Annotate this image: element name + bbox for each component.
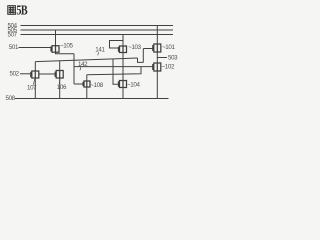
bus 507 bbox=[21, 34, 174, 36]
svg-text:~103: ~103 bbox=[128, 44, 141, 51]
wire 501 input bbox=[19, 47, 53, 49]
wire source Q103 to drain Q104 bbox=[122, 53, 124, 81]
title figure 5B bbox=[8, 2, 28, 17]
leader of 141 bbox=[97, 52, 100, 55]
transistor Q104 bbox=[119, 81, 127, 88]
wire source of Q105 jog bbox=[56, 52, 75, 54]
svg-text:~105: ~105 bbox=[60, 43, 73, 50]
wire source of Q104 bbox=[122, 88, 124, 99]
wire node 142 horizontal A bbox=[74, 66, 153, 68]
svg-text:507: 507 bbox=[8, 31, 18, 38]
svg-text:~101: ~101 bbox=[162, 44, 175, 51]
bus 504 bbox=[21, 25, 174, 27]
wire node 142 horizontal B bbox=[87, 67, 141, 75]
bus 505 bbox=[21, 29, 174, 31]
transistor Q105 bbox=[51, 46, 59, 53]
svg-text:5B: 5B bbox=[16, 2, 27, 17]
wire gate riser right bbox=[142, 49, 144, 63]
transistor Q108 bbox=[83, 81, 90, 87]
wire drain of Q108 bbox=[86, 75, 88, 81]
leader of 107 bbox=[34, 79, 35, 85]
svg-text:~104: ~104 bbox=[127, 82, 140, 89]
wire drain of Q101 from bus 504 bbox=[156, 26, 158, 45]
leader of 142 bbox=[80, 67, 81, 70]
leader of 106 bbox=[58, 79, 61, 84]
svg-text:503: 503 bbox=[168, 55, 178, 62]
wire source of Q107 bbox=[34, 78, 36, 99]
wire node 142 vertical bbox=[73, 54, 75, 84]
svg-text:~108: ~108 bbox=[90, 82, 103, 89]
svg-text:508: 508 bbox=[6, 95, 16, 102]
bus 508 bottom bbox=[15, 98, 169, 100]
svg-text:107: 107 bbox=[27, 85, 37, 92]
svg-text:142: 142 bbox=[78, 61, 88, 68]
wire drain of Q105 from bus 505 bbox=[55, 30, 57, 46]
wire source Q101 to drain Q102 bbox=[156, 52, 158, 63]
svg-text:501: 501 bbox=[9, 44, 19, 51]
wire drain of Q103 from bus 507 bbox=[122, 35, 124, 47]
transistor Q101 bbox=[153, 44, 161, 52]
svg-text:~102: ~102 bbox=[162, 64, 175, 71]
transistor Q106 bbox=[55, 71, 63, 79]
svg-text:502: 502 bbox=[10, 71, 20, 78]
wire source of Q106 bbox=[59, 78, 61, 99]
wire gate of Q101 bbox=[143, 48, 154, 50]
svg-text:106: 106 bbox=[57, 84, 67, 91]
wire node 141 horizontal bbox=[35, 58, 137, 62]
wire gate tap of Q104 bbox=[113, 59, 118, 84]
svg-text:141: 141 bbox=[95, 46, 105, 53]
wire output 503 bbox=[157, 57, 167, 59]
wire source of Q108 bbox=[86, 87, 88, 99]
wire source of Q102 bbox=[156, 71, 158, 99]
wire link node141 to right gates bbox=[138, 58, 144, 62]
wire gate of Q108 bbox=[74, 83, 83, 85]
transistor Q107 bbox=[31, 71, 39, 78]
wire gate of Q106 bbox=[39, 73, 56, 75]
wire 502 input bbox=[20, 73, 32, 75]
wire gate feedback loop of Q103 bbox=[110, 41, 124, 49]
transistor Q102 bbox=[153, 63, 161, 71]
wire drain of Q107 bbox=[34, 62, 36, 71]
transistor Q103 bbox=[119, 46, 127, 53]
wire drain of Q106 bbox=[59, 60, 61, 70]
